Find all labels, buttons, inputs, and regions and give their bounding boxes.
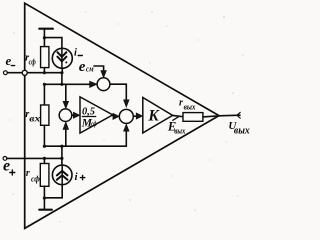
wire lower rail to summer2 [124,124,130,146]
resistor r_in [41,105,49,125]
wire summer2 to K [133,113,142,119]
label i- [74,47,82,58]
svg-text:сф: сф [91,121,97,128]
wire cm rail to summer 1 [44,81,97,87]
ground bottom [39,198,52,210]
terminal e+ [3,157,7,161]
label e_cm [79,59,94,75]
label K [147,108,160,125]
label r_sf2 [26,168,40,184]
node lower rail i+ [60,145,63,148]
svg-text:e: e [6,53,12,68]
label r_out [179,97,196,111]
node ground2 junction [43,196,46,199]
resistor r_out [183,113,203,122]
current source i+ [52,158,72,184]
svg-text:i: i [75,171,79,183]
wire cm summer out to 0.5 block [72,112,80,118]
wire lower cm rail [44,145,126,147]
wire i+ to ground [44,185,62,198]
label e+ input [3,157,15,175]
wire r_out to apex [203,116,219,117]
wire ground to r_sf1 [43,38,45,47]
ground top [39,29,53,38]
svg-text:r: r [179,97,183,108]
wire down to cm summer [63,84,69,108]
wire ground to i- [44,38,62,49]
svg-text:сф: сф [29,58,36,67]
node e+ r junction [43,157,46,160]
label E_out [167,119,186,135]
node cm rail left [43,83,46,86]
wire i- to rail [61,68,63,72]
wire i- down to cm rail [61,73,63,85]
svg-text:сф: сф [31,174,40,184]
wire summer1 to summer2 [110,84,129,107]
svg-text:вых: вых [234,125,250,136]
scan speckles [10,11,244,222]
wire 0.5 block to summer 2 [113,113,120,119]
resistor r_sf2 [40,158,49,186]
resistor r_sf1 [41,47,49,68]
node e- pin (open circle on edge) [22,70,27,75]
svg-text:K: K [147,108,160,125]
svg-text:см: см [86,65,94,74]
node i- rail [60,71,63,74]
op-amp outline triangle [25,3,219,228]
label U_out [228,120,249,137]
wire K to r_out [173,115,183,116]
current source i- [52,48,72,68]
node ground junction [43,36,46,39]
terminal e- [4,71,8,75]
wire lower feed to cm summer [63,122,69,146]
summer 2 [119,109,133,123]
svg-text:e: e [3,157,10,174]
svg-text:вых: вых [174,126,186,136]
summer cm (circle 3) [59,109,72,122]
label 0.5/Mcf [81,107,97,130]
label E_out pointer [173,117,179,120]
wire e+ input [7,157,62,159]
label r_sf1 [25,53,36,67]
svg-text:i: i [74,47,77,58]
svg-text:вх: вх [29,115,40,125]
svg-text:r: r [26,168,30,179]
svg-text:e: e [79,59,86,75]
node cm rail i- [60,83,63,86]
summer 1 (e_cm) [97,78,110,91]
node r junction [43,71,46,74]
wire output [219,112,240,118]
label r_in [25,109,40,125]
wire r_in to lower rail [43,125,45,146]
label i+ [75,171,85,183]
svg-text:вых: вых [184,102,197,112]
wire r_sf2 to ground [43,186,45,198]
amplifier 0.5/Mcf [80,97,113,133]
wire e- input [7,72,62,74]
wire r_sf1 to rail [43,68,45,73]
label e- input [6,53,15,68]
node e+ i junction [60,157,63,160]
node lower rail left [43,145,46,148]
wire lower rail risers [61,146,63,158]
wire rail to r_in [43,84,45,105]
wire e_cm to summer 1 [94,66,106,78]
amplifier K [143,98,173,133]
